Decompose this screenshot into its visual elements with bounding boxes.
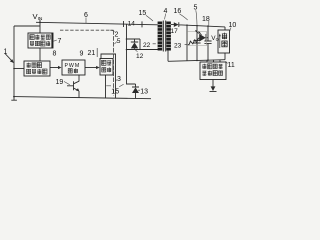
wire driver box bottom to ground [105,75,107,98]
svg-text:12: 12 [136,53,144,60]
LED triangle [199,34,206,42]
svg-text:15: 15 [111,89,119,96]
svg-text:11: 11 [228,62,235,69]
svg-text:3: 3 [117,76,121,83]
wire down to diode 13 [127,50,140,99]
box 7 input rectifier [28,33,53,48]
load box 10 [218,30,230,53]
wire load box feed [224,27,226,60]
svg-text:21: 21 [88,50,96,57]
svg-text:15: 15 [139,10,147,17]
wire primary bottom [127,49,159,51]
svg-text:10: 10 [229,22,237,29]
svg-text:13: 13 [140,89,148,96]
capacitor 18 [204,26,211,60]
diode D12 leads [131,39,138,50]
wire feeds into detection box [207,60,220,62]
svg-text:22: 22 [143,42,151,49]
resistor zigzag to LED [187,38,199,45]
capacitor 14 ticks on rail [124,21,143,27]
arrowhead Q19 emitter [76,88,80,91]
svg-text:8: 8 [53,51,57,58]
secondary winding [166,22,171,51]
diode D12 triangle [131,42,138,48]
diode 17 leads / secondary rail [179,22,225,27]
arrowhead B1->B2 [58,66,62,69]
wire input terminal line [14,25,40,27]
transistor Q19 leads [67,75,79,98]
junction dots [13,22,209,98]
photocoupler outline [188,32,207,46]
capacitor 5 [193,26,200,61]
svg-text:VIN: VIN [33,12,43,22]
wire snubber top [127,39,141,50]
dashed box 2 [60,29,114,31]
svg-text:23: 23 [174,43,182,50]
svg-text:9: 9 [80,51,84,58]
wire Vin drop [39,20,41,34]
diode 17 triangle [174,22,179,27]
primary winding 22 [158,22,163,51]
box B2 PWM [62,60,85,75]
arrowhead B2->B3 [96,66,100,69]
transformer core [163,21,165,52]
arrow terminal 1 [5,54,12,62]
LED cathode bar + lead [206,34,208,41]
svg-text:5: 5 [194,5,198,12]
svg-text:16: 16 [174,8,182,15]
svg-text:5: 5 [117,38,121,45]
node: bottom rail [14,97,151,99]
emission arrowheads [195,30,197,32]
wire driver box top loop to ground [101,54,116,98]
box B1 startup [24,61,50,76]
svg-text:14: 14 [128,20,136,27]
wire box7 to B1 [39,48,41,61]
box 11 output voltage detection [200,62,226,80]
wire secondary top lead [169,23,175,25]
svg-text:19: 19 [56,79,64,86]
wire zener branch [186,25,188,61]
wire B1 to PWM box [50,67,60,69]
svg-text:PWM: PWM [65,63,81,69]
diode D13 triangle [132,87,139,93]
wire detection box output [212,80,214,88]
box B3 driver [100,59,113,76]
wire lower secondary rail [168,51,225,62]
ground [11,97,17,101]
wire into startup box B1 [14,68,26,70]
svg-text:VO: VO [211,35,219,42]
svg-text:1: 1 [4,49,8,56]
wire PWM to driver box [85,67,99,69]
node: top rail (line 6) [36,22,158,25]
svg-text:7: 7 [58,38,62,45]
output down arrow of box 11 [211,86,216,91]
wire snubber branch vertical [126,24,128,50]
arrowheads [5,22,217,93]
svg-text:17: 17 [171,28,179,35]
LED emission arrows [196,30,202,35]
wire left input vertical [13,26,15,96]
